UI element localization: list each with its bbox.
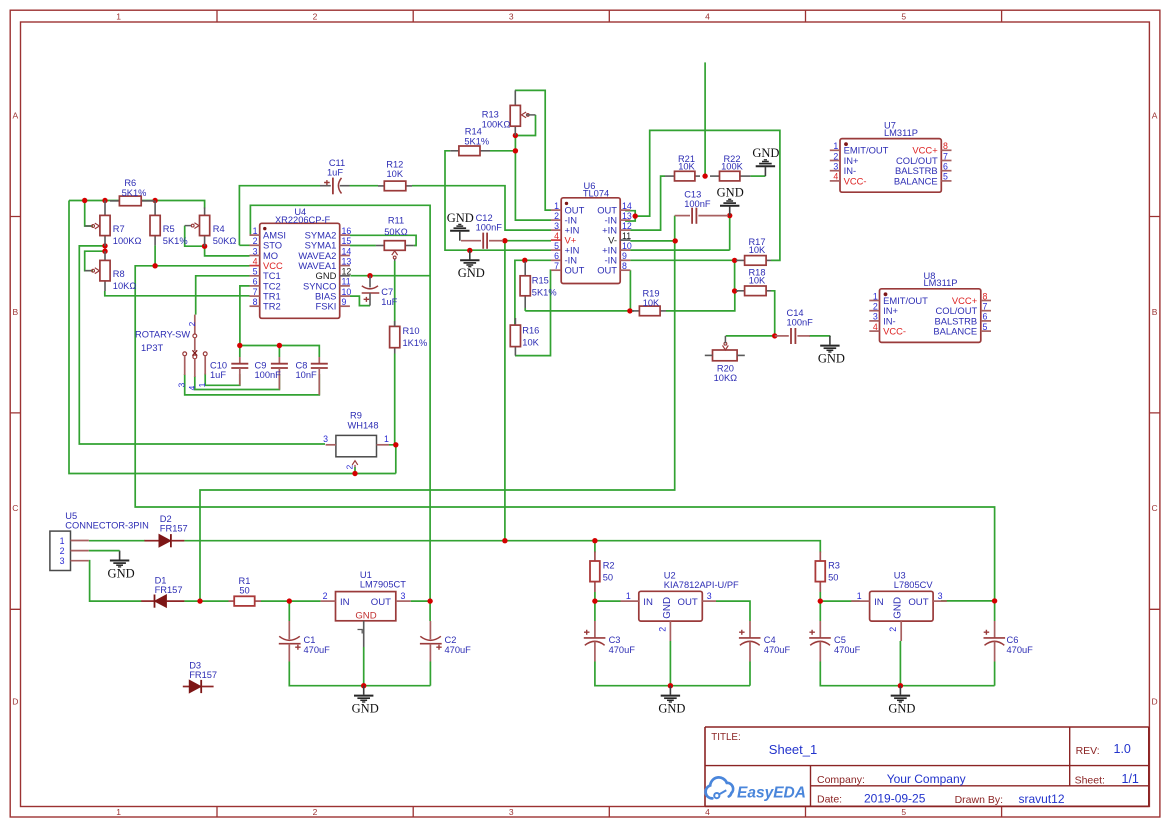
svg-text:3: 3 — [833, 162, 838, 172]
svg-text:GND: GND — [108, 566, 135, 580]
svg-text:10K: 10K — [387, 169, 404, 179]
capacitor C12 100nF — [461, 233, 503, 249]
svg-text:R19: R19 — [642, 288, 659, 298]
capacitor C9 100nF — [271, 357, 288, 390]
wire C11 to R12 link — [350, 185, 379, 187]
svg-text:11: 11 — [342, 277, 351, 287]
svg-text:470uF: 470uF — [764, 645, 791, 655]
svg-text:5K1%: 5K1% — [163, 236, 188, 246]
svg-text:3: 3 — [509, 12, 514, 22]
svg-text:sravut12: sravut12 — [1019, 792, 1065, 806]
svg-text:D2: D2 — [160, 514, 172, 524]
svg-text:100nF: 100nF — [476, 222, 503, 232]
wire U6 pin11 V- to C13 left vertical — [630, 240, 675, 242]
svg-text:C14: C14 — [787, 308, 804, 318]
svg-text:D: D — [1152, 697, 1158, 707]
svg-text:7: 7 — [253, 287, 258, 297]
svg-text:2: 2 — [833, 151, 838, 161]
wire C3 top lead — [594, 601, 596, 621]
wire C3 bottom to gnd rail — [595, 662, 750, 686]
svg-text:C9: C9 — [255, 360, 267, 370]
potentiometer R4 wiper arrow — [185, 223, 199, 229]
wire U3 OUT to C6 node — [941, 600, 995, 602]
svg-text:11: 11 — [622, 231, 631, 241]
svg-text:R5: R5 — [163, 224, 175, 234]
svg-text:BALANCE: BALANCE — [894, 175, 938, 186]
resistor R10 lead top — [394, 321, 396, 326]
resistor R6 5K1% body — [110, 196, 154, 206]
wire C5 bottom to gnd rail — [820, 662, 994, 686]
svg-text:2: 2 — [345, 464, 355, 469]
svg-text:10KΩ: 10KΩ — [113, 281, 137, 291]
svg-text:10nF: 10nF — [296, 370, 318, 380]
svg-text:100nF: 100nF — [684, 199, 711, 209]
wire R17 left to R18 left link — [735, 260, 738, 291]
svg-text:TITLE:: TITLE: — [711, 732, 740, 743]
svg-text:4: 4 — [253, 256, 258, 266]
wire U1 OUT to C2 node — [411, 600, 430, 602]
resistor R3 50 body — [815, 552, 825, 593]
svg-text:10K: 10K — [678, 162, 695, 172]
wire C2 top lead — [429, 601, 431, 621]
wire R1 to U1 IN — [261, 600, 321, 602]
wire C12 right to U6 pin4 — [505, 240, 551, 242]
svg-text:GND: GND — [662, 597, 673, 619]
svg-text:GND: GND — [717, 186, 744, 200]
wire U2 GND pin lead — [669, 641, 671, 686]
wire D2 rail to R2 R3 — [184, 541, 820, 553]
wire rotary pos4 to C9 bottom — [195, 374, 280, 390]
svg-text:5: 5 — [901, 12, 906, 22]
svg-text:R6: R6 — [124, 178, 136, 188]
svg-text:50: 50 — [239, 586, 249, 596]
svg-text:14: 14 — [622, 201, 632, 211]
capacitor C1 470uF — [279, 621, 301, 662]
svg-text:R13: R13 — [482, 110, 499, 120]
svg-text:50: 50 — [603, 573, 613, 583]
svg-text:LM7905CT: LM7905CT — [360, 580, 406, 590]
capacitor C5 470uF — [809, 621, 831, 662]
svg-text:FR157: FR157 — [160, 524, 188, 534]
svg-text:3: 3 — [554, 221, 559, 231]
svg-text:C8: C8 — [296, 360, 308, 370]
svg-text:C6: C6 — [1007, 635, 1019, 645]
svg-text:1: 1 — [384, 434, 389, 444]
svg-text:10K: 10K — [749, 276, 766, 286]
svg-text:C4: C4 — [764, 635, 776, 645]
wire U6 pin9 to R17 left — [630, 259, 738, 261]
svg-text:10: 10 — [622, 241, 632, 251]
svg-text:GND: GND — [447, 211, 474, 225]
potentiometer R11 wiper arrow — [392, 251, 398, 261]
wire C6 bottom lead — [994, 662, 996, 686]
wire C11/R12 net to U4 STO — [239, 186, 320, 246]
svg-text:C: C — [1152, 503, 1158, 513]
svg-text:FR157: FR157 — [189, 670, 217, 680]
potentiometer R20 body — [705, 336, 745, 361]
svg-text:5K1%: 5K1% — [122, 188, 147, 198]
svg-text:D3: D3 — [189, 661, 201, 671]
svg-text:2: 2 — [187, 321, 197, 326]
svg-text:5: 5 — [943, 172, 948, 182]
wire U3 GND pin lead — [899, 641, 901, 686]
wire U1 GND pin lead — [363, 647, 365, 686]
svg-text:2: 2 — [313, 807, 318, 817]
svg-text:Drawn By:: Drawn By: — [955, 794, 1003, 806]
svg-text:Company:: Company: — [817, 774, 865, 786]
svg-text:5K1%: 5K1% — [464, 136, 489, 146]
wire C10 top lead upper — [239, 346, 241, 358]
ground symbol right of C14 — [818, 336, 845, 366]
svg-text:2: 2 — [60, 546, 65, 556]
svg-text:REV:: REV: — [1076, 745, 1100, 757]
wire R13 wiper loop — [518, 115, 536, 136]
diode D2 FR157 — [144, 534, 184, 547]
wire R4 wiper link — [185, 226, 205, 247]
resistor R16 10K body — [510, 318, 520, 356]
wire C1 top lead — [288, 601, 290, 621]
capacitor C8 10nF — [311, 357, 328, 395]
capacitor C7 1uF — [362, 276, 380, 306]
svg-text:3: 3 — [938, 591, 943, 601]
svg-text:GND: GND — [352, 702, 379, 716]
svg-text:OUT: OUT — [565, 265, 585, 276]
wire U6 pins13-14 bracket — [625, 211, 635, 221]
svg-text:IN: IN — [340, 597, 350, 608]
wire U6 pin6 to R15 top and R16 top — [515, 260, 551, 325]
svg-text:50KΩ: 50KΩ — [213, 236, 237, 246]
wire R5 bottom drop — [154, 245, 156, 265]
comparator U8 LM311P body — [869, 289, 991, 343]
wire C14 right to ground — [809, 335, 830, 337]
svg-text:R8: R8 — [113, 269, 125, 279]
svg-text:2019-09-25: 2019-09-25 — [864, 791, 926, 805]
svg-text:CONNECTOR-3PIN: CONNECTOR-3PIN — [65, 521, 149, 531]
regulator U3 L7805CV body — [851, 591, 947, 641]
wire V+ vertical C12 to D2 rail — [504, 241, 506, 541]
svg-text:12: 12 — [342, 267, 352, 277]
wire U4 TC1 to rotary pole — [196, 276, 250, 315]
wire R18 right to C14 node — [771, 291, 775, 336]
svg-text:A: A — [1152, 111, 1158, 121]
wire U4 pin15 to R11 left — [350, 245, 376, 247]
svg-text:100K: 100K — [721, 162, 744, 172]
wire R2 top lead upper — [594, 541, 596, 553]
resistor R19 10K body — [632, 306, 666, 316]
op-amp U6 TL074 body — [551, 198, 630, 284]
wire junction dots — [82, 133, 997, 689]
svg-text:3: 3 — [177, 382, 187, 387]
wire R4 bottom to U4 MO — [205, 246, 250, 256]
ground symbol under U2 — [658, 686, 685, 716]
svg-text:3: 3 — [60, 556, 65, 566]
resistor R15 5K1% body — [520, 262, 530, 309]
capacitor C3 470uF — [584, 621, 606, 662]
svg-text:3: 3 — [401, 591, 406, 601]
svg-text:8: 8 — [943, 141, 948, 151]
wire top rail net R6R7R5R4 — [69, 201, 205, 209]
svg-text:10KΩ: 10KΩ — [714, 373, 738, 383]
svg-text:100nF: 100nF — [255, 370, 282, 380]
wire R3 bottom to U3 IN — [820, 592, 859, 601]
svg-text:15: 15 — [342, 236, 352, 246]
svg-text:470uF: 470uF — [1007, 645, 1034, 655]
wire U6 OUT loop to R17 right — [635, 130, 780, 260]
wire U4 TC2 to cap rail — [240, 286, 250, 346]
wire R11 wiper to R10 top — [394, 261, 396, 326]
wire U5 pin3 to D1 — [89, 561, 142, 601]
resistor R17 10K body — [736, 256, 771, 266]
capacitor C10 1uF — [231, 357, 248, 385]
svg-text:1uF: 1uF — [327, 168, 343, 178]
wire D1 to R1 — [184, 600, 228, 602]
svg-text:2: 2 — [323, 591, 328, 601]
svg-text:WH148: WH148 — [347, 420, 378, 430]
svg-text:50: 50 — [828, 573, 838, 583]
svg-text:U5: U5 — [65, 511, 77, 521]
capacitor C4 470uF — [739, 621, 761, 662]
svg-text:2: 2 — [873, 302, 878, 312]
wire V1 left vertical to R9 pin2 row — [69, 201, 396, 474]
resistor R13 100KΩ body — [510, 90, 520, 135]
svg-text:R2: R2 — [603, 561, 615, 571]
wire C4 bottom lead — [749, 662, 751, 686]
potentiometer R7 wiper arrow — [85, 223, 100, 229]
rotary switch SW 1P3T symbol — [183, 315, 207, 377]
svg-text:3: 3 — [253, 246, 258, 256]
wire C1 bottom to gnd rail — [289, 662, 430, 686]
svg-text:Your Company: Your Company — [887, 772, 966, 786]
wire U6 pin10 to C13 right node — [630, 216, 729, 251]
svg-text:2: 2 — [657, 627, 667, 632]
ground symbol under U1 — [352, 686, 379, 716]
ground symbol under U3 — [888, 686, 915, 716]
svg-text:R12: R12 — [386, 160, 403, 170]
wire R12 to U6 pin3 — [412, 186, 551, 230]
wire U4 BIAS to C7 bottom — [350, 296, 370, 306]
svg-text:1: 1 — [197, 382, 207, 387]
wire R13 bottom / R14 node to U6 pin2 — [515, 136, 551, 221]
svg-text:VCC-: VCC- — [844, 175, 867, 186]
svg-text:1: 1 — [873, 291, 878, 301]
wire U6 pin8 drop to R19 node — [629, 270, 631, 311]
svg-text:100KΩ: 100KΩ — [113, 236, 142, 246]
svg-text:GND: GND — [658, 702, 685, 716]
svg-text:3: 3 — [707, 591, 712, 601]
svg-text:2: 2 — [313, 12, 318, 22]
svg-text:OUT: OUT — [678, 597, 698, 608]
diode D1 FR157 — [141, 595, 184, 608]
svg-text:6: 6 — [983, 312, 988, 322]
svg-text:C5: C5 — [834, 635, 846, 645]
svg-text:FSKI: FSKI — [316, 301, 337, 312]
svg-text:14: 14 — [342, 246, 352, 256]
svg-text:470uF: 470uF — [609, 645, 636, 655]
wire rotary pos1 to C10 bottom — [205, 374, 240, 386]
resistor R12 10K body — [378, 181, 412, 191]
svg-text:6: 6 — [943, 162, 948, 172]
svg-text:Date:: Date: — [817, 793, 842, 805]
svg-text:7: 7 — [554, 261, 559, 271]
svg-text:10: 10 — [342, 287, 352, 297]
svg-text:1: 1 — [833, 141, 838, 151]
svg-text:GND: GND — [818, 352, 845, 366]
svg-text:U3: U3 — [894, 571, 906, 581]
svg-text:C: C — [12, 503, 18, 513]
svg-text:VCC-: VCC- — [883, 326, 906, 337]
resistor R2 50 body — [590, 552, 600, 593]
svg-text:470uF: 470uF — [304, 645, 331, 655]
op-amp U4 XR2206CP-F body — [250, 223, 350, 318]
resistor R18 10K body — [736, 286, 771, 296]
svg-text:13: 13 — [622, 211, 632, 221]
svg-text:C1: C1 — [304, 635, 316, 645]
svg-text:8: 8 — [622, 261, 627, 271]
resistor R1 50 body — [229, 596, 262, 606]
wire U6 pin7 to R16 bottom — [515, 270, 551, 355]
svg-text:13: 13 — [342, 256, 352, 266]
svg-text:C11: C11 — [329, 158, 345, 168]
svg-text:R7: R7 — [113, 224, 125, 234]
border ruler ticks top/bottom — [217, 10, 1002, 817]
svg-text:10K: 10K — [749, 245, 766, 255]
svg-text:EasyEDA: EasyEDA — [737, 784, 806, 801]
svg-text:5: 5 — [983, 322, 988, 332]
svg-text:50KΩ: 50KΩ — [384, 227, 408, 237]
svg-text:4: 4 — [554, 231, 559, 241]
resistor R11 50KΩ body — [376, 241, 414, 251]
svg-text:8: 8 — [253, 297, 258, 307]
regulator U1 LM7905CT body — [321, 592, 411, 647]
wire R9 pin1 riser — [389, 445, 396, 474]
svg-text:1: 1 — [116, 12, 121, 22]
ground symbol under U5 pin2 — [108, 551, 135, 581]
svg-text:LM311P: LM311P — [884, 128, 918, 138]
svg-text:TL074: TL074 — [583, 188, 609, 198]
svg-text:C3: C3 — [609, 635, 621, 645]
svg-text:7: 7 — [983, 302, 988, 312]
svg-text:GND: GND — [893, 597, 904, 619]
wire R2 bottom to U2 IN — [595, 592, 621, 601]
svg-text:B: B — [1152, 307, 1158, 317]
svg-text:2: 2 — [554, 211, 559, 221]
wire U4 pin16 to R11 bracket — [350, 235, 416, 245]
svg-text:OUT: OUT — [371, 597, 391, 608]
wire U4 pin1 loop to U1 OUT net — [250, 205, 431, 601]
svg-text:9: 9 — [622, 251, 627, 261]
svg-text:GND: GND — [355, 611, 376, 622]
svg-text:R15: R15 — [532, 276, 549, 286]
wire R14 right stub link — [490, 150, 515, 152]
svg-text:U2: U2 — [664, 571, 676, 581]
svg-text:R1: R1 — [239, 576, 251, 586]
svg-text:1: 1 — [60, 536, 65, 546]
svg-text:3: 3 — [873, 312, 878, 322]
resistor R4 50KΩ body — [200, 208, 210, 247]
svg-text:4: 4 — [833, 172, 838, 182]
wire R22 right to ground — [750, 175, 765, 177]
wire U2 OUT to C4 — [716, 601, 750, 621]
ground symbol right of R22 — [752, 146, 779, 176]
potentiometer R8 wiper arrow — [85, 268, 100, 274]
resistor R14 5K1% body — [450, 146, 490, 156]
svg-text:5K1%: 5K1% — [532, 288, 557, 298]
resistor R22 100K body — [710, 171, 750, 181]
ground symbol below C12 on U6 pin5 net — [458, 250, 485, 280]
potentiometer R9 WH148 body — [326, 435, 389, 467]
svg-text:C12: C12 — [476, 213, 493, 223]
svg-text:470uF: 470uF — [834, 645, 861, 655]
svg-text:1: 1 — [554, 201, 559, 211]
svg-text:C7: C7 — [381, 287, 393, 297]
svg-text:L7805CV: L7805CV — [894, 580, 934, 590]
svg-text:C13: C13 — [684, 189, 701, 199]
wire R9 pin2 lead — [354, 467, 356, 474]
svg-text:1: 1 — [626, 591, 631, 601]
svg-text:LM311P: LM311P — [924, 278, 958, 288]
wire R7/R8 node to V2 — [79, 246, 325, 444]
svg-text:BALANCE: BALANCE — [933, 326, 977, 337]
svg-text:FR157: FR157 — [155, 585, 183, 595]
svg-text:1: 1 — [253, 226, 258, 236]
svg-text:R16: R16 — [522, 326, 539, 336]
svg-text:5: 5 — [901, 807, 906, 817]
svg-text:GND: GND — [752, 146, 779, 160]
svg-text:4: 4 — [873, 322, 878, 332]
ground symbol above C13 right node — [717, 186, 744, 216]
wire R7 wiper link — [85, 201, 93, 227]
wire R21/R22 junction top stub — [704, 62, 706, 176]
wire VCC net U4 pin4 rail — [135, 266, 994, 601]
svg-text:IN: IN — [874, 597, 884, 608]
svg-text:GND: GND — [458, 266, 485, 280]
resistor R5 5K1% body — [150, 201, 160, 246]
wire D2 anode wire — [89, 540, 145, 542]
capacitor C2 470uF — [420, 621, 442, 662]
connector U5 CONNECTOR-3PIN body — [50, 531, 89, 570]
svg-text:6: 6 — [554, 251, 559, 261]
svg-text:5: 5 — [253, 267, 258, 277]
wire R10 bottom to R9 pin1 — [394, 354, 396, 445]
capacitor C14 100nF — [775, 328, 810, 344]
wire R14 left to U6 pin5 — [445, 151, 551, 250]
svg-text:7: 7 — [943, 151, 948, 161]
wire R19 right to R18 left node — [666, 291, 735, 311]
svg-text:R11: R11 — [388, 216, 404, 226]
capacitor C13 100nF — [675, 208, 728, 224]
svg-text:1uF: 1uF — [210, 370, 226, 380]
svg-text:R4: R4 — [213, 224, 225, 234]
potentiometer R13 wiper arrow — [522, 112, 530, 118]
svg-text:C2: C2 — [445, 635, 457, 645]
capacitor C6 470uF — [984, 621, 1006, 662]
svg-text:470uF: 470uF — [445, 645, 472, 655]
svg-text:U1: U1 — [360, 570, 372, 580]
capacitor C11 1uF — [320, 178, 350, 195]
svg-text:12: 12 — [622, 221, 632, 231]
svg-text:Sheet:: Sheet: — [1075, 774, 1105, 786]
svg-text:OUT: OUT — [908, 597, 928, 608]
svg-text:R20: R20 — [717, 364, 734, 374]
svg-text:9: 9 — [342, 297, 347, 307]
svg-text:R10: R10 — [403, 326, 420, 336]
svg-text:R3: R3 — [828, 561, 840, 571]
svg-text:6: 6 — [253, 277, 258, 287]
diode D3 FR157 — [183, 680, 214, 693]
svg-text:3: 3 — [509, 807, 514, 817]
svg-text:1P3T: 1P3T — [141, 343, 164, 353]
svg-text:5: 5 — [554, 241, 559, 251]
